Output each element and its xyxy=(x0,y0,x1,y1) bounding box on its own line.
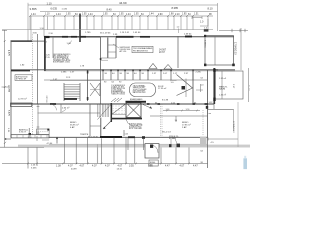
left dim line y147.4 xyxy=(0,146,44,148)
side text lines near wall xyxy=(46,54,51,59)
shaft dotted box xyxy=(112,104,126,115)
svg-text:1.05: 1.05 xyxy=(119,14,124,16)
lower corridor dim texts xyxy=(104,82,174,84)
svg-text:1.44: 1.44 xyxy=(56,14,61,16)
funnel wall x193 xyxy=(192,70,194,104)
small texts above top wall xyxy=(33,28,208,36)
top line end ticks xyxy=(27,3,29,41)
divider x61 xyxy=(60,104,62,113)
svg-text:1.98: 1.98 xyxy=(169,14,174,16)
elevator thick sill xyxy=(112,118,142,120)
svg-text:3.05/2.1: 3.05/2.1 xyxy=(204,40,206,48)
svg-text:1.32 m²: 1.32 m² xyxy=(219,94,226,97)
corridor posts xyxy=(103,70,193,80)
right offices: dim line y110.5 xyxy=(163,110,200,112)
cloud text xyxy=(133,85,147,94)
svg-text:1.44: 1.44 xyxy=(126,14,131,16)
vertical x214 top piece xyxy=(213,104,215,109)
stair mid wall x87.5 xyxy=(87,70,89,101)
svg-text:1.785: 1.785 xyxy=(85,32,91,34)
svg-text:2.39 64: 2.39 64 xyxy=(184,34,192,36)
vertical x29.2 xyxy=(28,128,30,134)
grey marker vertical xyxy=(97,144,99,163)
svg-text:5.035: 5.035 xyxy=(31,168,37,170)
wall x100.8 lower xyxy=(100,118,102,138)
svg-text:4.47: 4.47 xyxy=(193,164,198,167)
svg-text:4 AP: 4 AP xyxy=(70,126,75,129)
svg-text:4.575: 4.575 xyxy=(7,50,9,56)
svg-text:36 1.29 36: 36 1.29 36 xyxy=(88,137,99,139)
dark square x29 xyxy=(29,133,32,135)
door leaf dark xyxy=(150,145,153,148)
stair treads lower xyxy=(98,105,109,118)
svg-text:17.84: 17.84 xyxy=(249,85,250,91)
verteiler text box xyxy=(132,46,153,52)
svg-text:17.845/2.10: 17.845/2.10 xyxy=(233,42,236,55)
grey band full width xyxy=(18,145,250,148)
svg-text:5.15: 5.15 xyxy=(148,164,153,167)
svg-text:BODENTANK 1.80m: BODENTANK 1.80m xyxy=(53,60,70,63)
revision cloud xyxy=(130,83,156,97)
elevator dark header xyxy=(126,101,147,103)
elevator diagonals xyxy=(126,103,141,118)
short vertical x37 at wall xyxy=(36,136,38,141)
right margin dim vertical x248.3 xyxy=(247,68,249,102)
svg-text:2.34 m²: 2.34 m² xyxy=(62,107,70,110)
svg-text:1.51: 1.51 xyxy=(194,14,199,16)
bottom wall bar outline left xyxy=(11,135,49,138)
svg-text:1.32 m²: 1.32 m² xyxy=(219,77,226,80)
skylight triangle 2 xyxy=(164,65,172,70)
svg-text:5.575: 5.575 xyxy=(7,110,9,116)
top overall dimension line xyxy=(28,4,218,6)
dim arrow x57 xyxy=(56,139,58,144)
svg-text:2.57/1.0: 2.57/1.0 xyxy=(45,96,47,103)
right zone y109.3 line xyxy=(208,108,234,110)
right wc room rect xyxy=(216,71,244,99)
right outer dim vertical x241 xyxy=(240,28,242,70)
shaft dot hatch xyxy=(112,106,126,113)
dark segment on y104 left xyxy=(50,103,56,105)
dim vertical x233.5 xyxy=(233,109,235,131)
top-right room inner wall xyxy=(214,36,216,65)
dark thick segment xyxy=(100,136,122,138)
right corner vertical extension xyxy=(207,138,209,169)
staircase upper: rails xyxy=(63,83,65,101)
svg-text:20 67: 20 67 xyxy=(159,52,165,54)
svg-text:4.5 64: 4.5 64 xyxy=(47,143,54,145)
top-right room rect xyxy=(205,36,234,65)
elevator x-box xyxy=(126,103,141,118)
svg-text:1.05: 1.05 xyxy=(103,14,108,16)
room divider x178 xyxy=(177,36,179,68)
window element lower-left xyxy=(37,129,50,135)
svg-text:1.95: 1.95 xyxy=(182,14,187,16)
svg-text:44.99: 44.99 xyxy=(71,169,77,170)
right office label xyxy=(182,121,191,129)
svg-text:6.035: 6.035 xyxy=(51,6,58,10)
window segments on top wall xyxy=(44,36,50,38)
svg-text:4.07: 4.07 xyxy=(105,164,110,167)
svg-text:1.05: 1.05 xyxy=(82,14,87,16)
svg-text:2.285: 2.285 xyxy=(196,72,202,74)
svg-text:TREPPE: TREPPE xyxy=(80,134,89,136)
right thick wall x214.3 xyxy=(213,68,215,104)
corridor dim texts xyxy=(61,69,219,75)
stair dark landing xyxy=(64,98,77,100)
right-top corner dim line xyxy=(219,29,248,31)
svg-text:44.99: 44.99 xyxy=(119,1,127,5)
svg-text:3.95 m²: 3.95 m² xyxy=(19,131,26,134)
stepped left top wall xyxy=(11,40,33,42)
wall y116 xyxy=(150,115,208,117)
dotted axis pair x160.5/162 xyxy=(160,104,162,136)
svg-text:1.10: 1.10 xyxy=(47,1,53,5)
svg-text:4.07: 4.07 xyxy=(80,164,85,167)
tick marks on chain line xyxy=(29,15,208,17)
bottom wall inner line xyxy=(49,143,207,145)
svg-text:1.10: 1.10 xyxy=(45,14,50,16)
svg-text:2 AP: 2 AP xyxy=(182,126,187,129)
dark mark near 205,30 xyxy=(204,29,209,31)
svg-text:64: 64 xyxy=(45,42,47,44)
svg-text:1.05 64: 1.05 64 xyxy=(133,32,141,34)
svg-text:BF N. DIN EN81: BF N. DIN EN81 xyxy=(129,128,142,130)
svg-text:17.845/2.10: 17.845/2.10 xyxy=(232,121,234,133)
third ticked dimension chain line xyxy=(30,15,213,17)
wc cell walls x107.5/x116 xyxy=(107,38,109,59)
svg-text:1.44: 1.44 xyxy=(88,14,93,16)
second dim line xyxy=(40,11,218,13)
left ticks xyxy=(2,86,10,88)
svg-text:1.44: 1.44 xyxy=(31,14,36,16)
stair zone dim line xyxy=(50,79,100,81)
door post x176 xyxy=(175,116,177,122)
svg-text:1.135: 1.135 xyxy=(62,9,68,11)
marks under core xyxy=(123,130,125,136)
wc room texts xyxy=(219,77,228,97)
svg-text:14.10: 14.10 xyxy=(117,169,123,170)
right bottom dim line y139 xyxy=(208,138,238,140)
bottom main dim line xyxy=(2,163,208,165)
svg-text:4.07: 4.07 xyxy=(118,164,123,167)
svg-text:AP 1.30: AP 1.30 xyxy=(120,50,127,53)
svg-text:12.78 m²: 12.78 m² xyxy=(18,98,27,101)
svg-text:RAUM: RAUM xyxy=(219,88,225,91)
left wing corridor wall dark xyxy=(11,70,30,72)
aufzug box xyxy=(15,75,32,81)
svg-text:B 1.88: B 1.88 xyxy=(162,99,169,101)
svg-text:1.01: 1.01 xyxy=(125,134,129,136)
svg-text:2.385: 2.385 xyxy=(61,72,67,74)
stair core wall x111.3 xyxy=(110,103,112,122)
bottom dim tick marks xyxy=(27,163,189,165)
blue highlighter smudge xyxy=(243,158,247,169)
divider x90 xyxy=(89,104,91,137)
small left texts x200 xyxy=(201,78,205,87)
short line left of funnel xyxy=(170,79,177,81)
step connector wall xyxy=(44,37,46,71)
bottom wall line xyxy=(49,136,208,138)
staircase treads xyxy=(64,85,80,99)
dark blob x207 xyxy=(206,106,208,109)
svg-text:7 ABLUFT DN200: 7 ABLUFT DN200 xyxy=(111,93,125,96)
right-top small dim steps xyxy=(192,17,202,19)
shaft diagonal xyxy=(112,104,126,115)
bottom dim texts xyxy=(56,164,198,167)
small top texts above y104 right xyxy=(155,102,197,104)
skylight triangle 1 xyxy=(149,64,157,69)
elevator side leader arrow xyxy=(143,105,152,109)
svg-text:1.44: 1.44 xyxy=(149,14,154,16)
tick marks y113.5 xyxy=(209,113,212,115)
svg-text:4.47: 4.47 xyxy=(165,164,170,167)
left dim vertical xyxy=(4,30,6,147)
corridor south line xyxy=(44,79,207,81)
svg-text:3.655: 3.655 xyxy=(30,7,37,11)
office room label xyxy=(70,121,79,129)
funnel dark blob xyxy=(182,86,186,90)
wc room inner wall xyxy=(221,71,223,99)
thick pillar extension xyxy=(79,14,81,43)
dotted x203 xyxy=(202,110,204,136)
svg-text:8.385: 8.385 xyxy=(172,6,179,10)
svg-text:2.10: 2.10 xyxy=(175,14,180,16)
stair run arrow xyxy=(98,105,111,120)
office front wall y113 xyxy=(38,112,101,114)
ramp cross hatch xyxy=(90,83,100,96)
funnel stair arrow right xyxy=(177,75,193,89)
svg-text:1.38: 1.38 xyxy=(56,164,61,167)
svg-text:8 PERS. BF: 8 PERS. BF xyxy=(16,79,27,81)
svg-text:4.07: 4.07 xyxy=(180,164,185,167)
main top wall xyxy=(44,36,100,38)
protrusion box xyxy=(145,144,159,158)
room divider x100.5 xyxy=(100,37,102,70)
svg-text:2.90: 2.90 xyxy=(158,14,163,16)
small line y126 xyxy=(90,125,101,127)
left lower extension verticals xyxy=(27,148,29,169)
datum long line across sheet xyxy=(2,29,213,31)
interior wall x37.5 xyxy=(37,34,39,104)
door swing arc office left xyxy=(51,104,57,110)
lower hatch near stairs xyxy=(111,98,116,102)
dim chain tiny texts xyxy=(31,14,212,16)
svg-text:4.07: 4.07 xyxy=(68,164,73,167)
svg-text:12.785: 12.785 xyxy=(7,85,9,93)
corner blobs of right room xyxy=(204,35,206,37)
post head blobs xyxy=(102,69,194,71)
svg-text:17.35 m²: 17.35 m² xyxy=(158,87,167,90)
equipment text block xyxy=(111,84,126,95)
door swing arc xyxy=(152,145,159,153)
left wall bar outline xyxy=(11,103,32,107)
grey block right xyxy=(200,137,207,147)
dotted axis line left xyxy=(32,35,34,136)
wall line y104 xyxy=(11,103,215,105)
window extension verticals xyxy=(65,138,189,164)
wall x100.5 mid xyxy=(100,70,102,104)
svg-text:8.10: 8.10 xyxy=(208,6,214,10)
stair lower arrow xyxy=(103,121,111,129)
svg-text:WC-D 1.8: WC-D 1.8 xyxy=(162,132,172,134)
left outer wall xyxy=(10,41,12,138)
room divider x53 xyxy=(52,37,54,58)
svg-text:34.567: 34.567 xyxy=(159,49,167,51)
svg-text:8.40: 8.40 xyxy=(107,7,113,11)
text near funnel xyxy=(158,86,169,101)
svg-text:1.16 2.41: 1.16 2.41 xyxy=(120,32,130,34)
leader from note xyxy=(126,120,129,125)
big room text block xyxy=(53,53,71,64)
left arrow y139 xyxy=(5,138,12,140)
extension verticals from dim chain down xyxy=(30,17,208,37)
lower label box xyxy=(149,160,158,166)
wc cell rungs xyxy=(108,44,116,46)
svg-text:36 1.29 36: 36 1.29 36 xyxy=(100,32,111,34)
dark marks on band xyxy=(150,144,153,148)
svg-text:1.05: 1.05 xyxy=(66,14,71,16)
core note text block xyxy=(129,123,143,131)
svg-text:F90 BEIDSEITIG: F90 BEIDSEITIG xyxy=(133,50,148,52)
corridor north double line xyxy=(11,69,235,71)
svg-text:3.55: 3.55 xyxy=(129,164,134,167)
svg-text:4.07: 4.07 xyxy=(92,164,97,167)
wall x207.5 lower xyxy=(207,70,209,138)
svg-text:1.05: 1.05 xyxy=(134,14,139,16)
svg-text:NACH DIN 4102: NACH DIN 4102 xyxy=(133,91,146,94)
